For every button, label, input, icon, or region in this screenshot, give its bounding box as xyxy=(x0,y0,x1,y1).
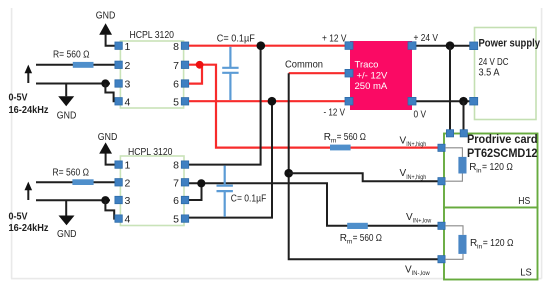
svg-text:Power supply: Power supply xyxy=(479,38,541,50)
svg-text:in: in xyxy=(477,243,483,250)
wire: +12V rail from U1 pin8 to Traco +12V pin xyxy=(188,45,348,47)
svg-text:1: 1 xyxy=(125,160,131,172)
capacitor C2 0.1uF xyxy=(224,166,226,185)
svg-text:IN+,high: IN+,high xyxy=(406,141,426,148)
signal arrow input 1 xyxy=(27,71,29,83)
svg-text:2: 2 xyxy=(125,60,131,72)
U1 pin 3 xyxy=(115,80,122,87)
power supply box xyxy=(475,28,537,120)
svg-text:4: 4 xyxy=(125,214,131,226)
svg-text:HCPL 3120: HCPL 3120 xyxy=(130,29,175,41)
opto-coupler U2 HCPL 3120 xyxy=(120,156,184,226)
wire: common branch to VIN-,high pin xyxy=(289,173,438,181)
power supply pin 0V xyxy=(470,97,478,105)
wire: +24V drop to Prodrive card top pin xyxy=(449,46,451,132)
wire: input 2 bottom to U2 pin3 xyxy=(36,199,110,201)
svg-text:IN+,high: IN+,high xyxy=(406,174,426,181)
svg-text:Common: Common xyxy=(285,60,323,71)
wire: U1 pin6 step up to output node xyxy=(188,65,202,84)
svg-text:PT62SCMD12: PT62SCMD12 xyxy=(467,146,538,160)
svg-text:= 560 Ω: = 560 Ω xyxy=(337,132,367,143)
svg-text:IN+,low: IN+,low xyxy=(413,217,432,224)
label VIN+,low xyxy=(406,212,431,225)
svg-text:0-5V: 0-5V xyxy=(9,91,28,103)
internal wiring LS input resistor xyxy=(445,226,463,235)
node: 0V junction dot xyxy=(459,97,468,106)
svg-text:HS: HS xyxy=(518,195,530,207)
U1 pin 8 xyxy=(181,42,188,49)
svg-text:8: 8 xyxy=(173,160,179,172)
svg-text:R= 560 Ω: R= 560 Ω xyxy=(53,167,90,178)
svg-text:8: 8 xyxy=(173,41,179,53)
ground symbol at U1 pin1 xyxy=(106,35,118,46)
svg-text:GND: GND xyxy=(96,10,116,22)
resistor R1 560 ohm xyxy=(73,62,94,68)
wire: +24V from Traco to power supply xyxy=(416,45,471,47)
power supply pin +24V xyxy=(470,42,478,50)
node: junction dot on -12V rail xyxy=(268,97,277,106)
label VIN+,high (black wire) xyxy=(400,168,427,181)
svg-text:= 120 Ω: = 120 Ω xyxy=(483,238,514,249)
wire: U2 output to Rm2 and VIN+,low xyxy=(188,183,438,226)
wire: U2 pin8 up to +12V rail xyxy=(188,46,261,165)
svg-text:- 12 V: - 12 V xyxy=(324,108,346,119)
wire: input 2 top to U2 pin2 through R2 xyxy=(36,181,118,183)
svg-text:5: 5 xyxy=(173,214,179,226)
Prodrive top pin 0V xyxy=(460,130,467,137)
U2 pin 3 xyxy=(115,196,122,203)
node: junction dot on +12V rail xyxy=(257,41,266,50)
ground symbol at input 2 xyxy=(65,200,67,215)
wire: common vertical bus (black) xyxy=(289,73,438,259)
svg-text:7: 7 xyxy=(173,60,179,72)
svg-text:16-24kHz: 16-24kHz xyxy=(9,104,49,116)
svg-text:0-5V: 0-5V xyxy=(9,210,28,222)
Prodrive pin VIN+,high xyxy=(438,144,445,151)
U2 pin 4 xyxy=(115,215,122,222)
Prodrive pin VIN-,high xyxy=(438,178,445,185)
wire: -12V rail from U1 pin5 to Traco -12V pin xyxy=(188,100,348,102)
U1 pin 6 xyxy=(181,80,188,87)
page frame right border xyxy=(541,8,543,279)
svg-text:4: 4 xyxy=(125,96,131,108)
U2 pin 8 xyxy=(181,161,188,168)
svg-text:+ 24 V: + 24 V xyxy=(414,33,439,44)
internal wiring HS input resistor xyxy=(445,148,462,157)
node: input 2 junction dot xyxy=(101,196,109,204)
svg-text:5: 5 xyxy=(173,96,179,108)
DCDC converter Traco xyxy=(350,41,412,110)
resistor Rin LS 120 ohm xyxy=(458,235,466,254)
node: U2 output junction dot xyxy=(197,179,205,187)
svg-text:LS: LS xyxy=(520,267,532,279)
U1 pin 1 xyxy=(115,42,122,49)
svg-text:3: 3 xyxy=(125,79,131,91)
Traco pin +12V in xyxy=(345,42,353,50)
Prodrive top pin +24V xyxy=(446,130,453,137)
capacitor C1 0.1uF xyxy=(229,47,231,67)
svg-text:GND: GND xyxy=(98,131,118,143)
node: input junction dot at U1 pin3 xyxy=(101,79,109,87)
wire: input bottom to U1 pin3 xyxy=(36,83,110,85)
node: common bus junction dot xyxy=(284,169,293,178)
U2 pin 6 xyxy=(181,196,188,203)
page frame bottom border xyxy=(11,278,542,280)
ground symbol at U2 pin1 xyxy=(106,153,118,164)
U1 pin 7 xyxy=(181,61,188,68)
signal arrow input 2 xyxy=(27,188,29,200)
Traco pin +24V xyxy=(408,42,416,50)
svg-text:IN-,low: IN-,low xyxy=(412,270,430,277)
U2 pin 1 xyxy=(115,161,122,168)
svg-text:GND: GND xyxy=(57,228,77,240)
svg-text:3: 3 xyxy=(125,195,131,207)
wire: staircase to U2 pin4 xyxy=(105,200,118,218)
wire: input top to U1 pin2 through R1 xyxy=(36,64,118,66)
U2 pin 7 xyxy=(181,179,188,186)
svg-text:R= 560 Ω: R= 560 Ω xyxy=(53,50,90,61)
U2 pin 5 xyxy=(181,215,188,222)
resistor R2 560 ohm xyxy=(72,179,93,185)
node: +24V junction dot xyxy=(446,41,455,50)
Prodrive pin VIN+,low xyxy=(438,222,445,229)
opto-coupler U1 HCPL 3120 xyxy=(120,41,183,108)
svg-text:3.5 A: 3.5 A xyxy=(479,68,500,79)
wire: 0V from Traco to power supply xyxy=(416,100,471,102)
svg-text:= 120 Ω: = 120 Ω xyxy=(482,162,513,173)
svg-text:HCPL 3120: HCPL 3120 xyxy=(128,146,173,158)
svg-text:C= 0.1µF: C= 0.1µF xyxy=(217,34,255,45)
wire: Common red segment from vertical bus to Traco common pin xyxy=(289,72,348,74)
Traco pin common xyxy=(345,69,353,77)
wire: 0V drop to Prodrive card top pin xyxy=(463,101,465,132)
resistor Rm1 560 ohm xyxy=(330,145,351,151)
svg-text:in: in xyxy=(476,167,482,174)
U2 pin 2 xyxy=(115,179,122,186)
svg-text:6: 6 xyxy=(173,79,179,91)
wire: staircase from junction to U1 pin4 xyxy=(105,84,118,102)
svg-text:6: 6 xyxy=(173,195,179,207)
Prodrive pin VIN-,low xyxy=(438,256,445,263)
svg-text:2: 2 xyxy=(125,177,131,189)
Traco pin 0V xyxy=(408,97,416,105)
node: U1 output junction (red dot) xyxy=(196,61,204,69)
U1 pin 4 xyxy=(115,98,122,105)
label VIN+,high (red wire) xyxy=(400,136,427,149)
svg-text:0 V: 0 V xyxy=(414,110,427,121)
U1 pin 5 xyxy=(181,98,188,105)
wire: U2 pin5 up to -12V rail xyxy=(188,101,272,217)
svg-text:250 mA: 250 mA xyxy=(355,81,388,92)
wire: U2 pin6 step up to output node xyxy=(188,183,202,200)
label VIN-,low xyxy=(405,265,430,278)
resistor Rin HS 120 ohm xyxy=(458,157,466,174)
svg-text:C= 0.1µF: C= 0.1µF xyxy=(231,194,266,205)
wire: U1 pin7 output to Rm1 and VIN+,high xyxy=(188,65,438,148)
svg-text:GND: GND xyxy=(57,110,77,122)
svg-text:16-24kHz: 16-24kHz xyxy=(9,222,49,234)
svg-text:+ 12 V: + 12 V xyxy=(322,34,347,45)
Prodrive card LS box xyxy=(444,208,538,280)
ground symbol at input 1 xyxy=(65,84,67,97)
U1 pin 2 xyxy=(115,61,122,68)
Prodrive card HS box xyxy=(444,134,538,208)
svg-text:= 560 Ω: = 560 Ω xyxy=(353,233,383,244)
svg-text:7: 7 xyxy=(173,177,179,189)
svg-text:Traco: Traco xyxy=(355,60,379,71)
svg-text:Prodrive card: Prodrive card xyxy=(467,132,538,146)
page frame left border xyxy=(11,8,13,279)
Traco pin -12V in xyxy=(345,97,353,105)
svg-text:1: 1 xyxy=(125,41,131,53)
resistor Rm2 560 ohm xyxy=(347,223,368,229)
